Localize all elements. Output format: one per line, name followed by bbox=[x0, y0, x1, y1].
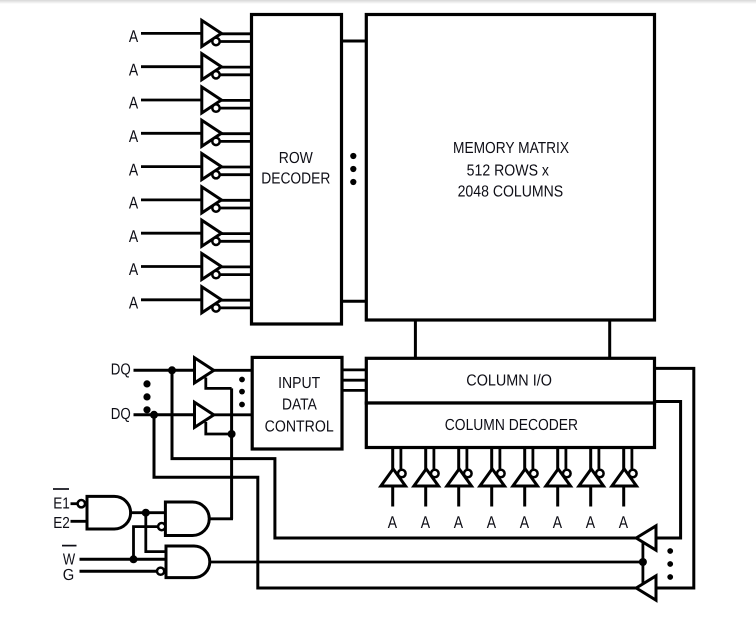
buffer (row 6, true/complement outputs) bbox=[202, 187, 253, 213]
wire: A4 input bbox=[141, 132, 203, 135]
wire: enable to G3 bbox=[146, 513, 167, 552]
column address buffer 6 (true/complement into decoder) bbox=[546, 449, 571, 507]
buffer (row 7, true/complement outputs) bbox=[202, 220, 253, 246]
svg-text:A: A bbox=[454, 513, 464, 532]
svg-text:DECODER: DECODER bbox=[261, 170, 330, 187]
column address buffer 2 (true/complement into decoder) bbox=[414, 449, 439, 507]
buffer (row 4, true/complement outputs) bbox=[202, 120, 253, 146]
wire: matrix to column I/O (right) bbox=[608, 320, 611, 358]
column decoder block bbox=[366, 403, 654, 448]
svg-text:A: A bbox=[487, 513, 497, 532]
junction on DQ bottom line bbox=[150, 411, 158, 419]
wire: A6 input bbox=[141, 198, 203, 201]
output buffer Q2 (bottom) bbox=[636, 576, 656, 600]
ellipsis dots (more output buffers) bbox=[667, 548, 673, 580]
input buffer (DQ bottom) bbox=[195, 402, 254, 434]
svg-text:INPUT: INPUT bbox=[278, 375, 320, 392]
wire: output buffer 1 to DQ top pad bbox=[172, 370, 637, 538]
column address buffer 4 (true/complement into decoder) bbox=[480, 449, 505, 507]
ellipsis dots (more data buffers) bbox=[239, 377, 245, 408]
svg-text:A: A bbox=[129, 160, 139, 179]
wire: A2 input bbox=[141, 65, 203, 68]
junction on DQ top line bbox=[168, 366, 176, 374]
wire: A1 input bbox=[141, 32, 203, 35]
wire: E1 input bbox=[71, 502, 78, 505]
wire: W input bbox=[80, 558, 168, 561]
wire: A7 input bbox=[141, 232, 203, 235]
wire: A3 input bbox=[141, 99, 203, 102]
svg-text:A: A bbox=[421, 513, 431, 532]
svg-text:A: A bbox=[619, 513, 629, 532]
svg-text:MEMORY MATRIX: MEMORY MATRIX bbox=[453, 140, 569, 157]
wire: A8 input bbox=[141, 265, 203, 268]
svg-text:A: A bbox=[129, 127, 139, 146]
buffer (row 8, true/complement outputs) bbox=[202, 254, 253, 280]
junction on W line bbox=[130, 555, 138, 563]
svg-text:CONTROL: CONTROL bbox=[265, 418, 334, 435]
AND gate G1 (chip-enable) with bubble on E1 bbox=[78, 496, 131, 529]
wire: matrix to column I/O (left) bbox=[414, 320, 417, 358]
column I/O block bbox=[366, 358, 654, 403]
buffer (row 1, true/complement outputs) bbox=[202, 20, 253, 46]
wire: DQ top line bbox=[134, 369, 196, 372]
svg-text:2048 COLUMNS: 2048 COLUMNS bbox=[458, 184, 564, 201]
wire: input data control to column I/O (3 lines) bbox=[341, 370, 367, 391]
wire: column decoder to output buffer 1 bbox=[655, 402, 681, 539]
junction on output-enable line bbox=[639, 558, 647, 566]
svg-text:A: A bbox=[129, 260, 139, 279]
svg-text:A: A bbox=[129, 227, 139, 246]
wire: W to G2 bubble bbox=[134, 527, 159, 560]
wire: G3 output to output buffers bbox=[210, 561, 643, 564]
wire: output buffer 2 to DQ bottom pad bbox=[154, 415, 637, 588]
wire: G2 output (write enable riser) bbox=[209, 517, 231, 519]
wire: E2 input bbox=[71, 520, 89, 523]
svg-text:ROW: ROW bbox=[279, 150, 314, 167]
AND gate G3 (output enable) with bubble on G bbox=[157, 546, 210, 578]
wire: G1 output bbox=[131, 511, 166, 514]
svg-text:DQ: DQ bbox=[111, 406, 131, 423]
buffer (row 2, true/complement outputs) bbox=[202, 54, 253, 80]
wire: DQ bottom line bbox=[134, 413, 196, 416]
input buffer (DQ top) bbox=[195, 358, 254, 389]
svg-text:E2: E2 bbox=[53, 515, 70, 532]
wire: output-enable tie bbox=[642, 543, 645, 584]
wire: A9 input bbox=[141, 298, 203, 301]
svg-text:A: A bbox=[129, 194, 139, 213]
AND gate G2 (write control) with bubble on W bbox=[158, 502, 209, 536]
svg-text:A: A bbox=[129, 294, 139, 313]
svg-text:A: A bbox=[388, 513, 398, 532]
buffer (row 5, true/complement outputs) bbox=[202, 154, 253, 180]
memory matrix array bbox=[366, 15, 654, 321]
column address buffer 1 (true/complement into decoder) bbox=[381, 449, 406, 507]
wire: write-enable riser to DQ buffers bbox=[230, 388, 233, 519]
column address buffer 3 (true/complement into decoder) bbox=[447, 449, 472, 507]
row decoder U1 bbox=[252, 15, 342, 325]
junction node (enable) bbox=[142, 509, 150, 517]
node E1 (chip enable 1, active low) bbox=[53, 489, 70, 512]
svg-text:COLUMN I/O: COLUMN I/O bbox=[466, 373, 552, 390]
column address buffer 8 (true/complement into decoder) bbox=[612, 449, 637, 507]
svg-text:A: A bbox=[129, 60, 139, 79]
svg-text:A: A bbox=[129, 27, 139, 46]
buffer (row 3, true/complement outputs) bbox=[202, 87, 253, 113]
wire: G input bbox=[80, 570, 158, 573]
svg-text:A: A bbox=[586, 513, 596, 532]
buffer (row 9, true/complement outputs) bbox=[202, 287, 253, 313]
svg-text:E1: E1 bbox=[53, 495, 70, 512]
svg-text:G: G bbox=[63, 567, 75, 584]
svg-text:A: A bbox=[129, 94, 139, 113]
wire: column I/O to output buffer 2 bbox=[655, 368, 694, 588]
ellipsis dots (more DQ lines) bbox=[143, 380, 150, 413]
column address buffer 7 (true/complement into decoder) bbox=[579, 449, 604, 507]
svg-text:512 ROWS x: 512 ROWS x bbox=[467, 163, 549, 180]
wire: row decoder to matrix (top) bbox=[342, 40, 367, 43]
svg-text:A: A bbox=[553, 513, 563, 532]
output buffer Q1 (top) bbox=[636, 526, 656, 550]
input data control block bbox=[252, 357, 342, 449]
svg-text:A: A bbox=[520, 513, 530, 532]
wire: A5 input bbox=[141, 165, 203, 168]
ellipsis dots (row lines continue) bbox=[350, 153, 356, 185]
node W (write enable, active low) bbox=[62, 546, 77, 569]
junction on write-enable riser bbox=[228, 430, 236, 438]
svg-text:DQ: DQ bbox=[111, 362, 131, 379]
svg-text:DATA: DATA bbox=[282, 396, 317, 413]
wire: row decoder to matrix (bottom) bbox=[342, 300, 367, 303]
svg-text:COLUMN DECODER: COLUMN DECODER bbox=[445, 417, 578, 434]
column address buffer 5 (true/complement into decoder) bbox=[513, 449, 538, 507]
